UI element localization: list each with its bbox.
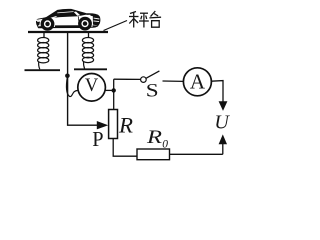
- switch S: [141, 71, 160, 82]
- rheostat R: [109, 110, 118, 139]
- wire R top riser: [113, 79, 115, 109]
- junction node at top of R: [112, 88, 116, 92]
- platform (weighing pan): [28, 31, 108, 33]
- arrow up (terminal -): [219, 134, 227, 154]
- label 秤台 (platform) drawn strokes: [129, 11, 161, 28]
- svg-text:R: R: [118, 112, 134, 137]
- spring left: [38, 33, 49, 69]
- label R: [118, 112, 134, 137]
- resistor R0: [137, 149, 170, 160]
- car (load on platform): [36, 9, 100, 30]
- svg-text:V: V: [85, 76, 99, 96]
- base pad right: [74, 68, 107, 70]
- svg-text:U: U: [214, 112, 230, 134]
- wire voltmeter to node: [105, 89, 114, 91]
- label R0: [146, 127, 168, 151]
- wire bottom right: [170, 153, 223, 155]
- leader line to label: [104, 21, 128, 31]
- svg-text:R: R: [146, 127, 163, 148]
- wiper arrow P: [97, 121, 108, 129]
- ammeter A: [183, 68, 211, 96]
- arrow down (terminal +): [219, 101, 228, 111]
- svg-text:0: 0: [162, 138, 168, 150]
- wire ammeter to right corner: [211, 81, 223, 102]
- label P: [92, 127, 103, 151]
- flexible wire to voltmeter: [67, 77, 79, 97]
- wire switch to ammeter: [163, 80, 184, 82]
- voltmeter V: [78, 74, 106, 102]
- label U: [214, 112, 230, 134]
- base pad left: [25, 69, 61, 71]
- spring right: [82, 33, 93, 69]
- svg-text:S: S: [146, 80, 159, 102]
- svg-text:P: P: [92, 127, 103, 151]
- svg-text:A: A: [190, 70, 206, 94]
- label S: [146, 80, 159, 102]
- node on rod: [65, 74, 70, 79]
- rod from platform to wiper: [68, 33, 98, 125]
- wire R0 to R bottom: [113, 139, 137, 157]
- wire top to switch: [114, 78, 141, 80]
